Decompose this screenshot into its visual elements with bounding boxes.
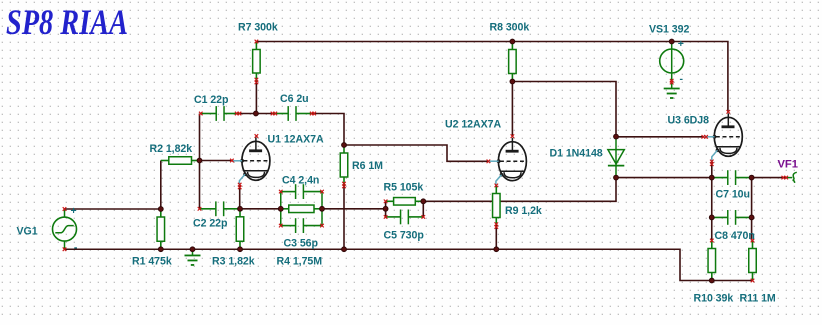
svg-text:R2 1,82k: R2 1,82k [150, 143, 193, 155]
svg-text:U1 12AX7A: U1 12AX7A [268, 134, 324, 146]
svg-text:VF1: VF1 [778, 158, 798, 170]
svg-text:U2 12AX7A: U2 12AX7A [445, 119, 501, 131]
svg-text:C1 22p: C1 22p [194, 94, 229, 106]
svg-text:U3 6DJ8: U3 6DJ8 [668, 115, 710, 127]
svg-text:R6 1M: R6 1M [352, 160, 383, 172]
svg-text:VG1: VG1 [17, 225, 38, 237]
svg-text:C2 22p: C2 22p [193, 217, 228, 229]
svg-text:C4 2,4n: C4 2,4n [282, 175, 319, 187]
svg-text:R10 39k: R10 39k [694, 293, 734, 305]
svg-text:R11 1M: R11 1M [740, 293, 776, 305]
svg-text:C3 56p: C3 56p [284, 237, 319, 249]
svg-text:R7 300k: R7 300k [238, 22, 278, 34]
svg-text:-: - [74, 242, 78, 254]
svg-text:D1 1N4148: D1 1N4148 [550, 148, 603, 160]
svg-text:R8 300k: R8 300k [490, 22, 530, 34]
svg-text:R3 1,82k: R3 1,82k [212, 255, 255, 267]
svg-text:SP8 RIAA: SP8 RIAA [6, 2, 128, 42]
svg-text:R5 105k: R5 105k [384, 182, 424, 194]
svg-text:C5 730p: C5 730p [384, 230, 425, 242]
svg-text:R1 475k: R1 475k [132, 255, 172, 267]
svg-text:R4 1,75M: R4 1,75M [277, 255, 323, 267]
svg-text:C7 10u: C7 10u [716, 189, 750, 201]
svg-text:R9 1,2k: R9 1,2k [505, 205, 542, 217]
svg-text:C6 2u: C6 2u [280, 93, 309, 105]
svg-text:VS1 392: VS1 392 [649, 23, 689, 35]
svg-text:C8 470n: C8 470n [715, 230, 755, 242]
svg-text:-: - [680, 73, 684, 85]
svg-text:+: + [678, 38, 684, 50]
svg-text:+: + [71, 205, 77, 217]
